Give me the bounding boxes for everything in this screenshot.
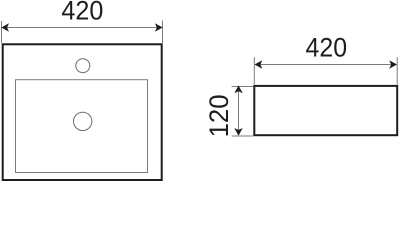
svg-text:120: 120 [204,94,234,137]
svg-text:420: 420 [61,0,103,26]
svg-text:420: 420 [306,33,348,63]
